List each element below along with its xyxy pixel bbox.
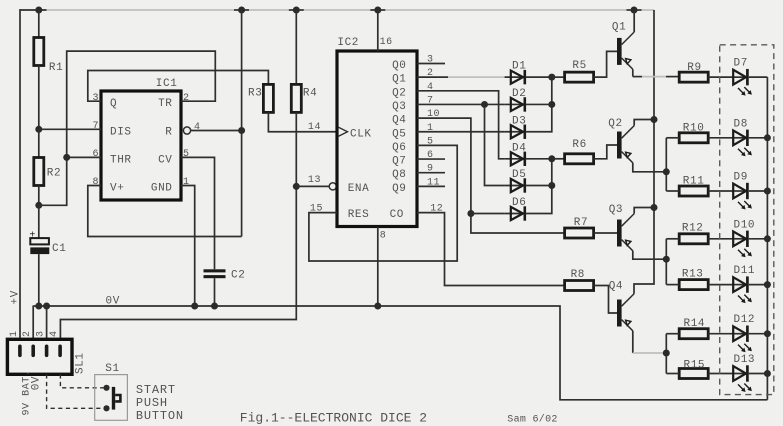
capacitor C1 (29, 231, 66, 256)
wire D11 cathode (749, 284, 768, 286)
svg-text:R13: R13 (682, 269, 704, 281)
svg-text:Fig.1--ELECTRONIC DICE 2: Fig.1--ELECTRONIC DICE 2 (240, 410, 427, 425)
svg-text:R9: R9 (687, 62, 701, 74)
connector SL1 (7, 339, 86, 374)
node Q2 emitter junction (651, 116, 658, 123)
svg-text:Q2: Q2 (608, 118, 622, 130)
node R2/C1/TR junction (35, 202, 42, 209)
wire D3 cathode group1 riser (526, 77, 552, 132)
svg-text:R10: R10 (683, 122, 705, 134)
wire R11 left bus (666, 190, 679, 192)
wire D13 cathode (749, 373, 768, 375)
svg-text:R6: R6 (572, 139, 586, 151)
svg-text:5: 5 (427, 136, 434, 147)
node Q3 collector tap (663, 256, 670, 263)
svg-text:D5: D5 (512, 169, 526, 181)
LED D10 (733, 219, 755, 257)
svg-text:R4: R4 (303, 87, 317, 99)
wire R2 bottom (38, 186, 40, 206)
wire D9 cathode (749, 190, 768, 192)
resistor R13 (679, 269, 708, 290)
resistor R2 (34, 158, 61, 186)
resistor R1 (34, 38, 64, 75)
wire Q4 collector to R14/R15 bus (632, 331, 634, 353)
svg-text:Q1: Q1 (612, 22, 626, 34)
resistor R6 (565, 139, 594, 164)
node C2 0V junction (211, 303, 218, 310)
wire D10 anode (708, 238, 734, 240)
op-amp IC1 555 timer (101, 78, 181, 200)
node D2 cathode junction (548, 101, 555, 108)
wire D12 anode (708, 333, 734, 335)
wire +V top rail (19, 9, 654, 11)
svg-text:2: 2 (22, 330, 33, 337)
svg-text:D1: D1 (512, 61, 526, 73)
svg-text:3: 3 (36, 330, 47, 337)
svg-text:D8: D8 (734, 118, 748, 130)
wire R10 left (666, 137, 679, 139)
svg-text:CO: CO (390, 209, 404, 221)
resistor R9 (679, 62, 708, 82)
node D4 cathode junction (548, 155, 555, 162)
svg-text:C1: C1 (52, 243, 66, 255)
svg-text:D12: D12 (734, 314, 756, 326)
transistor Q4 (609, 281, 635, 331)
svg-text:D7: D7 (734, 58, 748, 70)
node C1 0V junction (35, 303, 42, 310)
svg-text:Q0: Q0 (392, 60, 406, 72)
node junction IC2 pin16 (374, 7, 381, 14)
wire R8 to Q4 base (594, 286, 617, 314)
LED D7 (733, 58, 752, 96)
node Q4 collector tap (663, 350, 670, 357)
svg-text:R1: R1 (49, 62, 63, 74)
node junction R4 top (293, 7, 300, 14)
diode D3 (505, 115, 527, 139)
svg-text:PUSH: PUSH (136, 396, 168, 410)
wire SL1 pin4 to switch (dashed) (60, 374, 103, 388)
svg-text:2: 2 (183, 93, 190, 104)
wire Q1 emitter to +V rail (633, 10, 635, 32)
svg-text:IC2: IC2 (337, 37, 359, 49)
LED D13 (733, 354, 755, 392)
wire D6 anode (471, 213, 505, 215)
node Q3 emitter junction (651, 204, 658, 211)
resistor R15 (679, 360, 708, 379)
diode D1 (505, 61, 527, 85)
svg-text:+V: +V (9, 290, 21, 304)
node Q2 collector tap (663, 168, 670, 175)
LED D9 (733, 172, 752, 210)
svg-text:16: 16 (380, 37, 393, 48)
svg-text:D4: D4 (512, 142, 526, 154)
wire IC1 V+ to +V branch (88, 186, 242, 237)
wire D7 cathode (749, 76, 768, 78)
svg-text:1: 1 (9, 330, 20, 337)
svg-text:R3: R3 (248, 87, 262, 99)
wire IC1 TR loop (39, 51, 216, 205)
svg-text:BUTTON: BUTTON (136, 409, 184, 423)
svg-text:Q6: Q6 (392, 142, 406, 154)
svg-text:0V: 0V (31, 376, 43, 390)
node DIS junction (35, 126, 42, 133)
wire Q7 stub pin6 (417, 158, 445, 160)
svg-text:R8: R8 (571, 269, 585, 281)
svg-text:START: START (136, 383, 176, 397)
node START PUSH BUTTON label (136, 383, 184, 423)
wire D9 anode (708, 190, 734, 192)
svg-text:RES: RES (348, 209, 370, 221)
IC2 ENA bubble pin 13 (329, 183, 336, 190)
svg-text:GND: GND (151, 183, 173, 195)
wire Q9 stub pin11 (417, 185, 445, 187)
svg-text:0V: 0V (106, 296, 120, 308)
wire D10 cathode (749, 238, 768, 240)
svg-text:Q3: Q3 (392, 101, 406, 113)
svg-text:D13: D13 (734, 354, 756, 366)
svg-text:D9: D9 (734, 172, 748, 184)
svg-text:R: R (165, 126, 172, 138)
wire R14/R15 bus (665, 334, 667, 374)
svg-text:5: 5 (183, 149, 190, 160)
wire D11 anode (708, 284, 734, 286)
wire Q8 stub pin9 (417, 172, 445, 174)
resistor R7 (565, 217, 594, 238)
resistor R11 (679, 176, 708, 197)
wire Q3 collector to R12/R13 bus (633, 251, 667, 259)
svg-text:D3: D3 (512, 115, 526, 127)
wire Q5 pin1 to D3 (417, 131, 505, 133)
svg-text:IC1: IC1 (156, 78, 178, 90)
wire R5 to Q1 base (594, 51, 617, 77)
svg-text:TR: TR (158, 98, 172, 110)
wire +V right drop to transistor emitters (634, 10, 654, 294)
wire R1 bottom to DIS node (38, 66, 40, 130)
wire Q2 pin4 to D4 (417, 91, 505, 159)
LED D8 (733, 118, 752, 156)
node SL1 pin3 0V junction (43, 303, 50, 310)
wire R12 left (666, 238, 679, 240)
wire D2 cathode (526, 103, 552, 105)
node D11 cathode junction (764, 281, 771, 288)
svg-text:Q3: Q3 (609, 204, 623, 216)
wire D8 cathode (749, 137, 768, 139)
wire R3 bottom to IC2 CLK (268, 112, 337, 131)
wire Q0 stub pin3 (417, 63, 445, 65)
wire R10/R11 bus (665, 138, 667, 191)
wire IC1 Q output to R3 top (88, 71, 269, 102)
wire IC1 R pin to +V branch (191, 130, 242, 132)
svg-text:DIS: DIS (110, 126, 132, 138)
node junction R4 branch (238, 7, 245, 14)
node IC2 pin8 junction (374, 303, 381, 310)
svg-text:S1: S1 (105, 363, 119, 375)
wire CO pin12 to R8 (417, 213, 565, 286)
switch S1 start push button (95, 363, 128, 420)
svg-text:Q: Q (110, 98, 117, 110)
svg-text:8: 8 (380, 230, 387, 241)
svg-text:6: 6 (92, 149, 99, 160)
node D6 junction (467, 210, 474, 217)
wire Q3 pin7 to D2 (417, 103, 505, 105)
svg-text:SL1: SL1 (75, 352, 87, 374)
wire SL1 pin3 riser (46, 306, 48, 339)
wire R1 top (38, 10, 40, 38)
svg-text:R11: R11 (683, 176, 705, 188)
wire ENA node to ENA bubble (296, 185, 329, 187)
resistor R10 (679, 122, 708, 143)
svg-text:D10: D10 (734, 219, 756, 231)
svg-text:R2: R2 (47, 168, 61, 180)
wire IC1 GND to 0V (181, 186, 195, 307)
wire D12 cathode (749, 333, 768, 335)
svg-text:+: + (29, 231, 36, 242)
diode D4 (505, 142, 527, 166)
svg-text:14: 14 (308, 122, 321, 133)
wire Q2 emitter to rail (634, 120, 654, 126)
wire D13 anode (708, 373, 734, 375)
wire R7 to Q3 base (594, 232, 617, 234)
wire D4 cathode (526, 158, 552, 160)
svg-text:ENA: ENA (348, 183, 370, 195)
wire IC2 RES loop to Q6 (309, 145, 457, 261)
resistor R3 (248, 84, 273, 112)
op-amp IC2 4017 counter (337, 37, 417, 227)
wire LED cathode rail (766, 77, 768, 400)
LED D11 (733, 265, 755, 303)
transistor Q2 (608, 118, 634, 163)
wire Q1 collector to R9 (632, 69, 634, 76)
diode D2 (505, 88, 527, 112)
wire Q2 collector to R10/R11 bus (633, 163, 667, 172)
LED dashed enclosure (720, 45, 774, 395)
svg-text:V+: V+ (110, 183, 124, 195)
svg-text:4: 4 (194, 122, 201, 133)
wire IC2 pin8 to 0V (377, 227, 379, 306)
wire Q3 branch to D5 (485, 104, 505, 185)
svg-text:Q4: Q4 (609, 281, 623, 293)
wire D1 cathode (526, 76, 552, 78)
svg-text:CLK: CLK (350, 128, 372, 140)
wire node to C1 (38, 205, 40, 238)
svg-text:4: 4 (49, 330, 60, 337)
svg-text:Q7: Q7 (392, 156, 406, 168)
svg-text:Q8: Q8 (392, 169, 406, 181)
svg-text:Q4: Q4 (392, 115, 406, 127)
transistor Q3 (609, 204, 635, 251)
wire Q3 emitter to rail (634, 208, 654, 214)
node Q3 branch (481, 101, 488, 108)
node D8 cathode junction (764, 134, 771, 141)
node D13 cathode junction (764, 370, 771, 377)
svg-text:R15: R15 (684, 360, 706, 372)
svg-text:D6: D6 (512, 197, 526, 209)
svg-text:Q5: Q5 (392, 128, 406, 140)
wire 0V rail (33, 306, 767, 400)
wire C2 to 0V (214, 278, 216, 306)
node THR junction (63, 154, 70, 161)
wire IC1 THR to TR loop (67, 156, 101, 158)
wire group1 to R5 (552, 76, 565, 78)
resistor R5 (565, 60, 594, 82)
wire DIS node to R2 (38, 129, 40, 157)
node IC1 GND junction (191, 303, 198, 310)
wire R15 left (666, 373, 679, 375)
wire +V branch from top rail through R pin node (241, 10, 243, 237)
wire D5 cathode (526, 185, 552, 187)
node D12 cathode junction (764, 330, 771, 337)
svg-text:7: 7 (92, 121, 99, 132)
svg-text:THR: THR (110, 154, 132, 166)
resistor R4 (291, 84, 317, 112)
svg-text:D2: D2 (512, 88, 526, 100)
capacitor C2 (204, 269, 246, 281)
svg-text:Q1: Q1 (392, 74, 406, 86)
node D1 cathode junction (548, 74, 555, 81)
node R pin junction (238, 127, 245, 134)
resistor R14 (679, 318, 708, 339)
wire D7 anode (708, 76, 734, 78)
wire R13 left (666, 284, 679, 286)
node D10 cathode junction (764, 235, 771, 242)
svg-text:Q9: Q9 (392, 183, 406, 195)
LED D12 (733, 314, 755, 352)
svg-text:C2: C2 (231, 270, 245, 282)
node D5 cathode junction (548, 182, 555, 189)
wire R4 bottom through ENA node down to SL1 pin4 (60, 112, 296, 339)
wire IC1 DIS to R1/R2 node (39, 128, 101, 130)
wire group2 to R6 (552, 158, 565, 160)
svg-text:R7: R7 (574, 217, 588, 229)
diode D6 (505, 197, 527, 221)
svg-text:R5: R5 (572, 60, 586, 72)
wire R4 top to +V rail (295, 10, 297, 84)
resistor R8 (565, 269, 594, 291)
diode D5 (505, 169, 527, 193)
wire R6 to Q2 base (594, 145, 617, 159)
wire C1 to 0V (38, 254, 40, 306)
node D9 cathode junction (764, 188, 771, 195)
node ENA junction (293, 183, 300, 190)
node junction Q1 emitter (631, 7, 638, 14)
svg-text:Sam 6/02: Sam 6/02 (507, 413, 557, 425)
svg-text:3: 3 (92, 93, 99, 104)
svg-text:Q2: Q2 (392, 87, 406, 99)
wire R12/R13 bus (665, 239, 667, 285)
svg-text:D11: D11 (734, 265, 756, 277)
wire IC2 pin16 to +V rail (377, 10, 379, 51)
node junction R1 top (35, 7, 42, 14)
svg-text:R14: R14 (684, 318, 706, 330)
wire SL1 pin2 riser (32, 306, 34, 340)
svg-text:13: 13 (308, 175, 321, 186)
wire Q4 pin10 to D6 and R7 (417, 118, 565, 233)
transistor Q1 (612, 22, 634, 70)
wire IC1 CV to C2 (181, 157, 215, 269)
wire D6 cathode group2 riser (526, 159, 552, 214)
wire D8 anode (708, 137, 734, 139)
wire +V left rail down to SL1 pin1 (19, 9, 21, 339)
resistor R12 (679, 223, 708, 244)
svg-text:CV: CV (158, 154, 172, 166)
wire R14 left (666, 333, 679, 335)
pin 4 reset bubble (183, 127, 190, 134)
svg-text:R12: R12 (682, 223, 704, 235)
wire SL1 pin3 to switch (dashed) (47, 374, 104, 408)
wire Q1 pin2 to D1 (417, 76, 448, 78)
